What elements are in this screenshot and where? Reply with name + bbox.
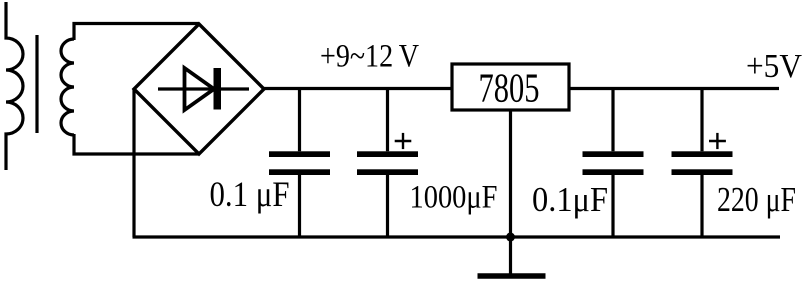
- capacitor C3 bottom lead: [611, 175, 614, 237]
- transformer T1 core: [35, 35, 38, 133]
- bridge rectifier D1 diamond: [134, 24, 264, 154]
- svg-text:7805: 7805: [479, 65, 540, 111]
- wire +5V rail: [569, 87, 779, 90]
- bridge rectifier D1 diode triangle: [185, 68, 215, 110]
- capacitor C2 top lead: [386, 87, 389, 151]
- capacitor C3 plates: [583, 151, 644, 175]
- capacitor C1 top lead: [298, 87, 301, 151]
- capacitor C4 bottom lead: [700, 175, 703, 237]
- bridge rectifier D1 diode axis line: [158, 87, 249, 90]
- bridge rectifier D1 diode cathode bar: [214, 68, 222, 110]
- svg-text:0.1 μF: 0.1 μF: [210, 174, 290, 214]
- capacitor C2 polarity plus: [395, 133, 412, 149]
- regulator U1 ground pin wire: [509, 110, 512, 237]
- svg-text:+5V: +5V: [746, 48, 802, 85]
- transformer T1 secondary winding: [61, 39, 74, 135]
- svg-text:+9~12 V: +9~12 V: [320, 39, 419, 75]
- wire secondary top to bridge AC input: [74, 24, 199, 41]
- wire bridge negative output down: [132, 89, 135, 237]
- wire ground bus: [133, 235, 781, 238]
- capacitor C3 top lead: [611, 87, 614, 151]
- capacitor C4 polarity plus: [709, 133, 726, 149]
- transformer T1 primary winding: [6, 2, 23, 170]
- svg-text:1000μF: 1000μF: [410, 180, 498, 216]
- capacitor C4 plates: [672, 151, 733, 175]
- ground symbol: [478, 237, 546, 276]
- capacitor C4 top lead: [700, 87, 703, 151]
- capacitor C2 bottom lead: [386, 175, 389, 237]
- junction dot at ground bus: [506, 233, 515, 242]
- capacitor C1 plates: [269, 151, 330, 175]
- wire secondary bottom to bridge AC input: [74, 134, 198, 154]
- capacitor C1 bottom lead: [298, 175, 301, 237]
- regulator U1 7805 box: [452, 64, 569, 110]
- svg-text:0.1μF: 0.1μF: [532, 180, 608, 219]
- svg-text:220 μF: 220 μF: [717, 180, 796, 219]
- wire +9~12V rail: [264, 87, 452, 90]
- capacitor C2 plates: [357, 151, 418, 175]
